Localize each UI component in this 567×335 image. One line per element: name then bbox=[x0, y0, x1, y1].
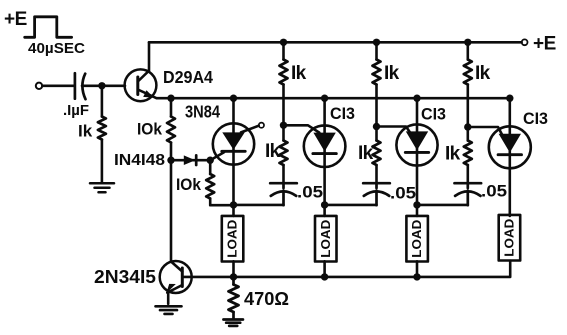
ground 470 ohm bbox=[223, 320, 243, 326]
wire gate stage1 bbox=[284, 125, 320, 132]
transistor Q1 D29A4 bbox=[125, 42, 171, 101]
wire C13-1 cathode to next cap bbox=[325, 204, 377, 207]
svg-text:D29A4: D29A4 bbox=[163, 67, 213, 87]
resistor 1k anode stage1 bbox=[282, 42, 285, 59]
junction dot top rail stage2 bbox=[373, 39, 380, 46]
svg-text:CI3: CI3 bbox=[523, 110, 548, 128]
svg-text:+E: +E bbox=[4, 9, 27, 30]
svg-text:LOAD: LOAD bbox=[503, 219, 517, 257]
resistor 1k anode stage2 bbox=[375, 42, 378, 59]
resistor 1k gate stage2 bbox=[375, 127, 378, 141]
svg-text:IOk: IOk bbox=[176, 176, 202, 194]
wire LOAD2 to bottom rail bbox=[323, 261, 326, 277]
wire top rail bbox=[149, 41, 522, 44]
junction dot bottom rail 470 bbox=[230, 273, 237, 280]
junction dot C13-3 anode bbox=[506, 95, 513, 102]
svg-text:CI3: CI3 bbox=[421, 106, 446, 124]
LOAD box 1 bbox=[222, 216, 244, 262]
capacitor .05 stage3 bbox=[455, 183, 482, 205]
wire gate stage2 bbox=[377, 127, 411, 134]
svg-text:Ik: Ik bbox=[78, 122, 93, 141]
junction dot bottom rail LOAD3 bbox=[413, 273, 420, 280]
wire capacitor to base node bbox=[82, 85, 125, 88]
svg-text:470Ω: 470Ω bbox=[244, 289, 289, 309]
junction dot diode cathode bbox=[207, 157, 214, 164]
resistor 10k lower bbox=[209, 160, 212, 174]
SCS U1 3N84 bbox=[213, 98, 254, 216]
svg-text:CI3: CI3 bbox=[330, 105, 355, 123]
wire LOAD1 to bottom rail bbox=[232, 261, 235, 277]
junction dot gate stage1 bbox=[280, 122, 287, 129]
junction dot base node bbox=[98, 82, 105, 89]
SCR C13 stage3 bbox=[489, 98, 531, 216]
svg-text:.05: .05 bbox=[481, 183, 507, 201]
svg-text:Ik: Ik bbox=[291, 63, 307, 84]
SCR C13 stage1 bbox=[304, 98, 346, 216]
svg-text:3N84: 3N84 bbox=[185, 102, 220, 122]
junction dot 3N84 cathode bbox=[230, 201, 237, 208]
svg-text:.IµF: .IµF bbox=[63, 102, 89, 119]
resistor 10k upper bbox=[170, 98, 173, 116]
junction dot C13-2 anode bbox=[413, 95, 420, 102]
svg-text:LOAD: LOAD bbox=[226, 220, 240, 258]
diode D1 1N4148 bbox=[171, 155, 210, 165]
capacitor .05 stage1 bbox=[270, 183, 297, 205]
SCR C13 stage2 bbox=[396, 98, 437, 216]
junction dot 3N84 anode bbox=[230, 95, 237, 102]
junction dot gate stage2 bbox=[373, 123, 380, 130]
junction dot diode anode bbox=[167, 157, 174, 164]
capacitor .05 stage2 bbox=[363, 183, 390, 205]
svg-text:Ik: Ik bbox=[265, 141, 281, 162]
junction dot C13-1 cathode bbox=[321, 201, 328, 208]
resistor 1k input bias bbox=[101, 86, 104, 117]
svg-text:.05: .05 bbox=[390, 185, 416, 203]
wire diode node to Q2 collector bbox=[170, 160, 173, 261]
wire LOAD3 to bottom rail bbox=[416, 261, 419, 277]
wire C13-2 cathode to next cap bbox=[417, 204, 468, 207]
LOAD box 2 bbox=[315, 216, 337, 262]
junction dot C13-2 cathode bbox=[413, 201, 420, 208]
bottom rail bbox=[184, 261, 510, 277]
junction dot top rail stage1 bbox=[280, 39, 287, 46]
svg-text:IOk: IOk bbox=[137, 121, 163, 139]
svg-text:+E: +E bbox=[533, 34, 556, 55]
capacitor C1 .1uF bbox=[75, 73, 86, 99]
wire 3N84 cathode to C2 bbox=[234, 204, 284, 207]
svg-text:Ik: Ik bbox=[445, 144, 461, 165]
wire anode rail bbox=[171, 97, 510, 100]
pulse waveform symbol bbox=[25, 17, 72, 38]
junction dot bottom rail LOAD2 bbox=[321, 273, 328, 280]
wire cathode gate of 3N84 bbox=[210, 152, 224, 160]
svg-text:IN4I48: IN4I48 bbox=[114, 152, 165, 169]
svg-text:LOAD: LOAD bbox=[319, 220, 333, 258]
+E rail terminal bbox=[522, 39, 528, 45]
ground input bias bbox=[90, 183, 114, 192]
svg-text:Ik: Ik bbox=[384, 63, 400, 84]
junction dot C13-1 anode bbox=[321, 95, 328, 102]
ground Q2 emitter bbox=[156, 306, 182, 314]
LOAD box 4 bbox=[499, 215, 521, 261]
resistor 1k gate stage1 bbox=[282, 125, 285, 140]
svg-text:LOAD: LOAD bbox=[410, 220, 424, 258]
transistor Q2 2N3415 bbox=[160, 261, 192, 304]
wire gate stage3 bbox=[468, 127, 503, 136]
junction dot gate stage3 bbox=[464, 123, 471, 130]
resistor 1k anode stage3 bbox=[466, 42, 469, 59]
svg-text:Ik: Ik bbox=[358, 143, 374, 164]
resistor 1k gate stage3 bbox=[466, 127, 469, 141]
junction dot top rail stage3 bbox=[464, 39, 471, 46]
input terminal bbox=[36, 83, 42, 89]
resistor 470 ohm bbox=[232, 277, 235, 285]
svg-text:40µSEC: 40µSEC bbox=[28, 40, 85, 57]
3N84 anode gate terminal bbox=[241, 126, 259, 133]
svg-text:2N34I5: 2N34I5 bbox=[94, 267, 156, 287]
svg-text:.05: .05 bbox=[297, 184, 323, 202]
junction dot emitter node bbox=[167, 95, 174, 102]
wire input to capacitor bbox=[42, 85, 73, 88]
svg-text:Ik: Ik bbox=[475, 63, 491, 84]
LOAD box 3 bbox=[406, 216, 428, 262]
